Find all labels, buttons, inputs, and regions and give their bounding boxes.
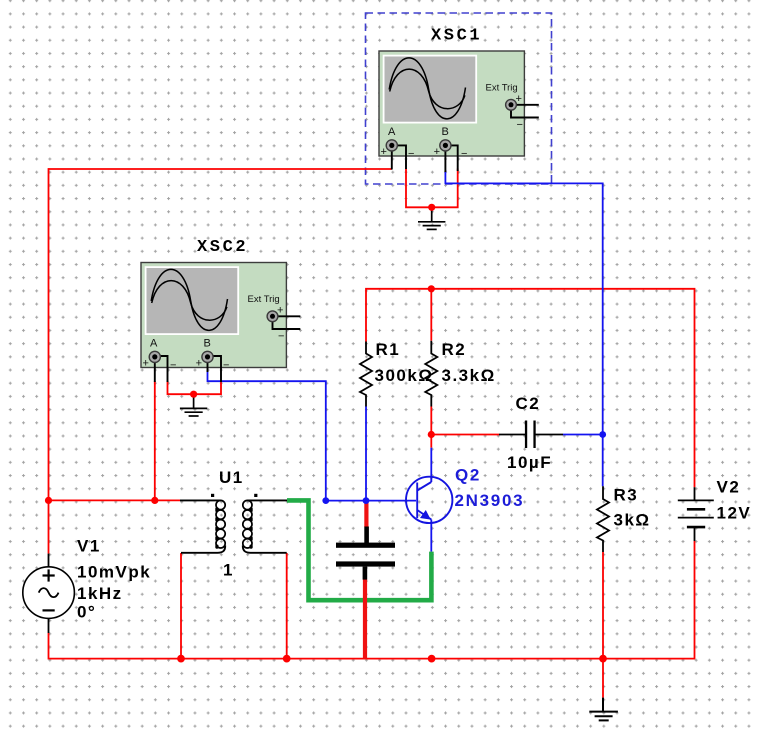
svg-text:R1: R1 bbox=[376, 340, 401, 359]
svg-text:12V: 12V bbox=[717, 504, 752, 523]
junction XSC2 A+ tap bbox=[151, 497, 158, 504]
junction bottom bus transformer primary bbox=[177, 655, 185, 663]
svg-text:B: B bbox=[442, 126, 449, 138]
wire Q2 collector up bbox=[430, 448, 432, 479]
terminal A XSC2 bbox=[149, 351, 160, 362]
wire XSC2 A- B- to ground U bbox=[168, 381, 222, 394]
svg-text:1kHz: 1kHz bbox=[77, 584, 123, 603]
svg-text:+: + bbox=[196, 358, 202, 370]
svg-text:A: A bbox=[388, 126, 396, 138]
terminal A XSC1 bbox=[386, 140, 397, 151]
svg-text:3kΩ: 3kΩ bbox=[614, 511, 651, 530]
svg-text:R3: R3 bbox=[614, 486, 639, 505]
wire R3 bottom to ground bbox=[602, 552, 604, 698]
svg-text:C2: C2 bbox=[516, 394, 541, 413]
svg-text:Q2: Q2 bbox=[455, 466, 481, 485]
svg-text:V2: V2 bbox=[717, 478, 741, 497]
wire XSC2 B+ blue to base node bbox=[208, 370, 326, 501]
wire left rail vertical to V1 bbox=[48, 168, 50, 553]
svg-text:1: 1 bbox=[223, 561, 234, 580]
oscilloscope XSC1 bbox=[379, 27, 539, 173]
svg-text:−: − bbox=[461, 148, 467, 160]
junction R2 C2 collector node bbox=[428, 431, 435, 438]
svg-text:300kΩ: 300kΩ bbox=[375, 366, 434, 385]
svg-text:A: A bbox=[150, 338, 158, 350]
capacitor C1 top lead thick red bbox=[364, 501, 368, 527]
resistor R2 bbox=[425, 341, 437, 407]
svg-text:10mVpk: 10mVpk bbox=[77, 563, 151, 582]
wire base node to Q2 base bbox=[326, 500, 416, 502]
junction base node R1 tap bbox=[363, 497, 370, 504]
junction bottom bus C1 bbox=[428, 655, 436, 663]
svg-text:−: − bbox=[278, 331, 284, 343]
source V1 bbox=[23, 554, 75, 633]
terminal Ext Trig XSC2 bbox=[267, 311, 278, 322]
wire transformer primary bottom down bbox=[180, 553, 182, 659]
svg-text:Ext Trig: Ext Trig bbox=[248, 294, 280, 305]
wire XSC2 terminal stubs bbox=[155, 316, 300, 382]
svg-text:+: + bbox=[516, 93, 522, 105]
wire C2 right to blue node bbox=[563, 434, 603, 436]
ground below XSC2 bbox=[180, 394, 207, 416]
svg-text:−: − bbox=[517, 119, 523, 131]
wire R1 bottom blue bbox=[365, 407, 367, 501]
wire top bus R1 to V2 bbox=[366, 289, 695, 487]
wire bottom bus bbox=[49, 541, 695, 659]
capacitor C1 bottom lead thick red bbox=[363, 580, 367, 659]
junction bottom bus R3 bbox=[599, 655, 607, 663]
svg-text:3.3kΩ: 3.3kΩ bbox=[442, 366, 496, 385]
wire XSC2 A+ down bbox=[154, 381, 156, 500]
svg-text:−: − bbox=[223, 360, 229, 372]
terminal B XSC1 bbox=[440, 140, 451, 151]
svg-text:XSC2: XSC2 bbox=[197, 238, 248, 257]
svg-text:XSC1: XSC1 bbox=[431, 27, 482, 46]
svg-text:10µF: 10µF bbox=[507, 453, 552, 472]
wire transformer secondary bottom down bbox=[286, 553, 288, 659]
ground below XSC1 bbox=[418, 207, 445, 229]
terminal Ext Trig XSC1 bbox=[506, 99, 517, 110]
svg-text:V1: V1 bbox=[77, 537, 101, 556]
svg-text:−: − bbox=[408, 148, 414, 160]
wire junction to C2 left bbox=[431, 434, 499, 436]
svg-text:0°: 0° bbox=[77, 603, 96, 622]
wire XSC1 terminal stubs bbox=[392, 105, 539, 172]
svg-text:−: − bbox=[170, 360, 176, 372]
battery V2 bbox=[678, 487, 714, 541]
terminal B XSC2 bbox=[202, 351, 213, 362]
wire R2 bottom to junction bbox=[430, 407, 432, 448]
svg-text:+: + bbox=[143, 358, 149, 370]
wire V1 to transformer primary top bbox=[49, 499, 181, 501]
wire blue node down to R3 bbox=[602, 435, 604, 487]
wire R2 top stub bbox=[430, 289, 432, 341]
transformer U1 bbox=[180, 500, 287, 552]
svg-text:U1: U1 bbox=[219, 468, 244, 487]
resistor R1 bbox=[360, 342, 372, 407]
junction bottom bus transformer secondary bbox=[283, 655, 291, 663]
capacitor C1 plates bbox=[336, 527, 395, 580]
junction top bus R2 bbox=[428, 285, 435, 292]
svg-text:Ext Trig: Ext Trig bbox=[486, 83, 518, 94]
junction V1 branch bbox=[45, 497, 52, 504]
resistor R3 bbox=[597, 486, 609, 552]
svg-text:2N3903: 2N3903 bbox=[455, 491, 525, 510]
wire green transformer secondary to Q2 emitter bbox=[287, 500, 431, 600]
junction C2 output node bbox=[599, 431, 606, 438]
wire XSC1 A- B- to ground U bbox=[406, 169, 458, 208]
selection box around XSC1 bbox=[366, 13, 552, 184]
svg-text:R2: R2 bbox=[442, 340, 467, 359]
junction XSC1 ground node bbox=[428, 204, 435, 211]
svg-text:+: + bbox=[434, 146, 440, 158]
wire A+ XSC1 to left rail bbox=[49, 168, 392, 170]
capacitor C2 bbox=[499, 421, 563, 449]
oscilloscope XSC2 bbox=[141, 238, 300, 382]
ground bottom right bbox=[589, 698, 618, 721]
transistor Q2 2N3903 bbox=[406, 477, 452, 523]
svg-text:+: + bbox=[277, 305, 283, 317]
junction XSC2 ground node bbox=[190, 391, 197, 398]
wire Q2 emitter down bbox=[430, 520, 432, 552]
svg-text:B: B bbox=[204, 338, 211, 350]
junction node B XSC2 tap bbox=[322, 497, 329, 504]
svg-text:+: + bbox=[381, 146, 387, 158]
wire XSC1 B+ blue down right bbox=[445, 170, 602, 435]
